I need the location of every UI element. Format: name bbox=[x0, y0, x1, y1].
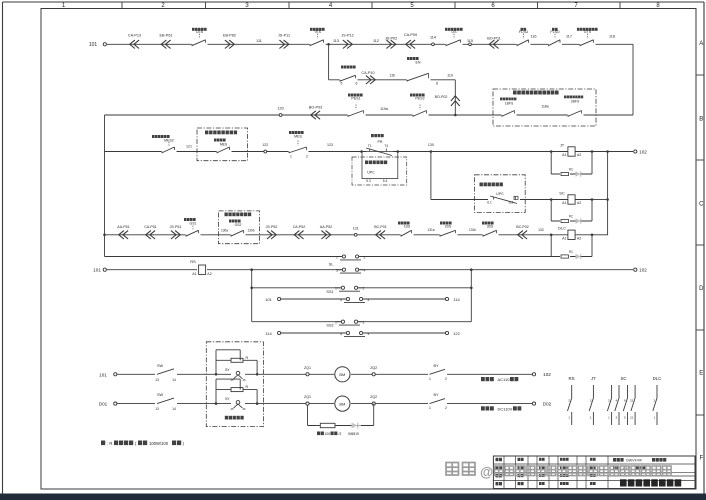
svg-text:117: 117 bbox=[566, 35, 572, 39]
svg-text:22: 22 bbox=[630, 399, 634, 403]
svg-text:1DS: 1DS bbox=[404, 225, 411, 229]
svg-text:JS-P51: JS-P51 bbox=[170, 225, 182, 229]
svg-text:102: 102 bbox=[639, 149, 647, 154]
svg-text:2: 2 bbox=[363, 287, 365, 291]
svg-text:RS: RS bbox=[190, 259, 196, 264]
svg-text:45: 45 bbox=[230, 378, 234, 382]
svg-text:JT: JT bbox=[560, 142, 565, 147]
svg-text:JS-P02: JS-P02 bbox=[385, 37, 397, 41]
svg-text:EB-P62: EB-P62 bbox=[223, 34, 236, 38]
svg-text:1: 1 bbox=[335, 287, 337, 291]
svg-text:AA-P52: AA-P52 bbox=[320, 225, 332, 229]
svg-text:3: 3 bbox=[336, 269, 338, 273]
svg-text:A1: A1 bbox=[192, 272, 196, 276]
svg-text:102: 102 bbox=[543, 372, 551, 377]
svg-text:BM: BM bbox=[339, 372, 345, 377]
svg-text:SC: SC bbox=[620, 376, 626, 381]
svg-text:46: 46 bbox=[242, 378, 246, 382]
svg-text:3DS: 3DS bbox=[487, 225, 494, 229]
svg-text:131b: 131b bbox=[469, 228, 476, 232]
svg-text:TES: TES bbox=[314, 30, 322, 34]
svg-text:13: 13 bbox=[155, 407, 159, 411]
svg-text:CES: CES bbox=[196, 30, 204, 34]
svg-text:: R: : R bbox=[107, 441, 112, 446]
svg-text:118: 118 bbox=[609, 35, 615, 39]
svg-text:BY: BY bbox=[433, 364, 439, 368]
svg-text:GWVF/VF: GWVF/VF bbox=[626, 458, 643, 462]
svg-text:C: C bbox=[699, 202, 704, 208]
svg-text:131a: 131a bbox=[427, 228, 434, 232]
svg-text:5.4: 5.4 bbox=[383, 179, 388, 183]
svg-text:PR: PR bbox=[378, 140, 383, 144]
svg-text:A2: A2 bbox=[577, 153, 581, 157]
svg-text:112: 112 bbox=[373, 39, 379, 43]
svg-text:EN: EN bbox=[416, 61, 421, 65]
svg-text:A: A bbox=[699, 41, 703, 47]
svg-text:2: 2 bbox=[445, 377, 447, 381]
svg-text:BO-P03: BO-P03 bbox=[309, 106, 323, 110]
svg-text:BC-P01: BC-P01 bbox=[374, 225, 387, 229]
svg-text:102: 102 bbox=[639, 268, 647, 273]
svg-text:MES2: MES2 bbox=[164, 139, 174, 143]
svg-text:MES: MES bbox=[220, 143, 228, 147]
svg-text:SS1: SS1 bbox=[326, 290, 333, 294]
svg-text:120: 120 bbox=[277, 107, 283, 111]
svg-text:CA-P51: CA-P51 bbox=[144, 225, 157, 229]
svg-text:D01: D01 bbox=[99, 402, 108, 407]
svg-text:5: 5 bbox=[341, 82, 343, 86]
svg-text:JT: JT bbox=[591, 376, 596, 381]
svg-text:AA-P51: AA-P51 bbox=[117, 225, 129, 229]
svg-text:CA-P10: CA-P10 bbox=[361, 71, 374, 75]
svg-text:IN5819: IN5819 bbox=[348, 432, 359, 436]
svg-text:GS2: GS2 bbox=[235, 223, 242, 227]
svg-text:1BFS: 1BFS bbox=[505, 102, 514, 106]
svg-text:@: @ bbox=[480, 465, 493, 480]
svg-text:6: 6 bbox=[356, 82, 358, 86]
svg-text:4: 4 bbox=[368, 298, 370, 302]
svg-text:101: 101 bbox=[93, 268, 101, 273]
svg-text:119: 119 bbox=[447, 74, 453, 78]
svg-text:A2: A2 bbox=[577, 201, 581, 205]
svg-text:1: 1 bbox=[429, 406, 431, 410]
svg-text:101: 101 bbox=[89, 42, 98, 48]
svg-text:JS-P11: JS-P11 bbox=[278, 34, 290, 38]
svg-text:2: 2 bbox=[306, 155, 308, 159]
svg-text:3: 3 bbox=[340, 298, 342, 302]
svg-text:131: 131 bbox=[353, 227, 359, 231]
svg-text:JS-P52: JS-P52 bbox=[266, 225, 278, 229]
svg-text:115: 115 bbox=[467, 39, 473, 43]
svg-text:14: 14 bbox=[172, 407, 176, 411]
svg-text:SW: SW bbox=[157, 393, 164, 397]
svg-text:114: 114 bbox=[453, 297, 460, 302]
svg-text:2BFS: 2BFS bbox=[571, 100, 580, 104]
svg-text:F: F bbox=[699, 456, 703, 462]
svg-text:1: 1 bbox=[429, 377, 431, 381]
svg-text:B: B bbox=[699, 117, 703, 123]
svg-text:BY: BY bbox=[433, 393, 439, 397]
svg-text:BC-P02: BC-P02 bbox=[516, 225, 529, 229]
svg-text:BO-P01: BO-P01 bbox=[487, 37, 501, 41]
svg-text:A2: A2 bbox=[577, 236, 581, 240]
svg-text:2: 2 bbox=[364, 255, 366, 259]
svg-text:GS1: GS1 bbox=[189, 222, 196, 226]
svg-text:100: 100 bbox=[325, 432, 331, 436]
svg-text:UPC: UPC bbox=[496, 192, 504, 196]
svg-text:12b: 12b bbox=[390, 74, 396, 78]
svg-text:DLC: DLC bbox=[653, 376, 662, 381]
svg-text:46: 46 bbox=[242, 407, 246, 411]
svg-text:2: 2 bbox=[445, 406, 447, 410]
svg-text:JS-P12: JS-P12 bbox=[341, 34, 353, 38]
svg-text:111: 111 bbox=[256, 39, 262, 43]
svg-text:8: 8 bbox=[436, 82, 438, 86]
svg-text:PES1: PES1 bbox=[351, 97, 360, 101]
svg-text:CA-P52: CA-P52 bbox=[293, 225, 306, 229]
svg-text:R: R bbox=[246, 385, 249, 389]
svg-text:ZQ1: ZQ1 bbox=[304, 395, 311, 399]
svg-text:SL: SL bbox=[329, 263, 334, 267]
svg-text:A1: A1 bbox=[562, 236, 566, 240]
svg-text:RC: RC bbox=[569, 215, 574, 219]
svg-text:ZQ1: ZQ1 bbox=[304, 366, 311, 370]
svg-text:AC110: AC110 bbox=[498, 377, 511, 382]
svg-text:122: 122 bbox=[453, 331, 460, 336]
svg-text:114: 114 bbox=[265, 331, 272, 336]
svg-text:116: 116 bbox=[530, 35, 536, 39]
svg-text:T1: T1 bbox=[368, 144, 372, 148]
svg-text:113: 113 bbox=[333, 39, 339, 43]
svg-text:UPC: UPC bbox=[367, 171, 375, 175]
svg-text:1: 1 bbox=[336, 255, 338, 259]
svg-text:45: 45 bbox=[230, 407, 234, 411]
svg-text:EB-P61: EB-P61 bbox=[159, 34, 172, 38]
svg-text:SC: SC bbox=[559, 190, 565, 195]
svg-text:4: 4 bbox=[364, 269, 366, 273]
svg-text:OS: OS bbox=[451, 30, 457, 34]
svg-text:1: 1 bbox=[335, 321, 337, 325]
svg-text:FLSD: FLSD bbox=[550, 30, 560, 34]
svg-text:MES: MES bbox=[294, 135, 302, 139]
svg-text:ZQ2: ZQ2 bbox=[370, 395, 377, 399]
svg-text:SS2: SS2 bbox=[326, 324, 333, 328]
svg-text:132: 132 bbox=[538, 228, 544, 232]
svg-text:A1: A1 bbox=[562, 153, 566, 157]
svg-text:A2: A2 bbox=[207, 272, 211, 276]
svg-text:101: 101 bbox=[265, 297, 272, 302]
svg-text:13: 13 bbox=[155, 378, 159, 382]
svg-text:119a: 119a bbox=[380, 107, 388, 111]
svg-text:3: 3 bbox=[340, 332, 342, 336]
svg-text:114: 114 bbox=[430, 36, 436, 40]
svg-text:T4: T4 bbox=[384, 144, 388, 148]
svg-text:SW: SW bbox=[157, 364, 164, 368]
svg-text:5.3: 5.3 bbox=[366, 179, 371, 183]
svg-text:DLC: DLC bbox=[558, 226, 566, 231]
svg-text:100W/100: 100W/100 bbox=[149, 441, 169, 446]
svg-text:130a: 130a bbox=[221, 229, 228, 233]
svg-text:A1: A1 bbox=[562, 201, 566, 205]
svg-text:DC110V: DC110V bbox=[498, 406, 513, 411]
svg-text:123: 123 bbox=[327, 143, 333, 147]
svg-text:1: 1 bbox=[290, 155, 292, 159]
svg-text:RS: RS bbox=[568, 376, 574, 381]
svg-text:ZQ2: ZQ2 bbox=[370, 366, 377, 370]
svg-text:D02: D02 bbox=[543, 401, 552, 406]
svg-text:2DS: 2DS bbox=[445, 225, 452, 229]
svg-text:4: 4 bbox=[368, 332, 370, 336]
svg-text:2: 2 bbox=[363, 321, 365, 325]
svg-text:D: D bbox=[699, 286, 704, 292]
svg-text:BO-P02: BO-P02 bbox=[435, 95, 448, 99]
svg-text:130: 130 bbox=[428, 143, 434, 147]
svg-text:101: 101 bbox=[99, 372, 107, 377]
svg-text:PES2: PES2 bbox=[415, 97, 424, 101]
svg-text:21: 21 bbox=[630, 416, 634, 420]
svg-text:E: E bbox=[699, 371, 703, 377]
svg-text:122: 122 bbox=[262, 143, 268, 147]
svg-text:RC: RC bbox=[569, 168, 574, 172]
svg-text:FLSU: FLSU bbox=[519, 30, 529, 34]
svg-text:CA-P13: CA-P13 bbox=[128, 34, 141, 38]
svg-text:6.1: 6.1 bbox=[487, 201, 492, 205]
svg-text:/2: /2 bbox=[339, 432, 342, 436]
svg-text:121: 121 bbox=[186, 145, 192, 149]
svg-text:GTS: GTS bbox=[584, 30, 592, 34]
svg-text:CA-P09: CA-P09 bbox=[404, 33, 417, 37]
svg-text:118a: 118a bbox=[541, 105, 548, 109]
svg-text:BM: BM bbox=[339, 401, 345, 406]
svg-text:130b: 130b bbox=[247, 229, 254, 233]
svg-text:R: R bbox=[246, 356, 249, 360]
svg-text:RC: RC bbox=[569, 250, 574, 254]
svg-text:14: 14 bbox=[172, 378, 176, 382]
